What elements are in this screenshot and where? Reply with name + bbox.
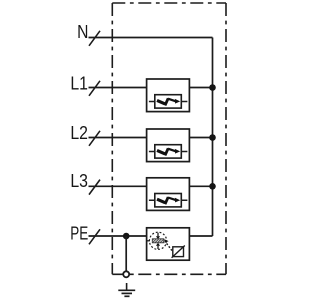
wire L2 right [189, 137, 212, 139]
svg-text:L1: L1 [70, 74, 88, 94]
svg-text:PE: PE [70, 223, 88, 243]
tick on PE feeder [89, 229, 100, 244]
ground [118, 290, 135, 296]
svg-text:N: N [77, 22, 88, 42]
terminal circle on enclosure [123, 271, 129, 277]
wire L3 left [89, 185, 147, 187]
enclosure dashed border top [112, 2, 226, 4]
svg-text:L3: L3 [70, 171, 88, 191]
tick on N feeder [89, 31, 100, 46]
junction dot L2-bus [209, 134, 216, 141]
wire bus to N-PE arrester [189, 235, 212, 237]
surge arrester U1 (L1-N) [147, 79, 190, 112]
wire N [89, 37, 213, 39]
wire L3 right [189, 185, 212, 187]
wire N bus vertical [212, 38, 214, 237]
surge arrester U2 (L2-N) [147, 129, 190, 162]
spark gap arrester U4 (N-PE) [147, 228, 190, 260]
enclosure dashed border left [111, 3, 113, 274]
enclosure dashed border right [225, 3, 227, 274]
tick on L1 feeder [89, 81, 100, 96]
earth stem [126, 283, 128, 290]
tick on L2 feeder [89, 131, 100, 146]
junction dot L3-bus [209, 183, 216, 190]
junction dot PE [123, 233, 130, 240]
wire L1 left [89, 87, 147, 89]
wire PE to earth terminal [125, 236, 127, 271]
wire L2 left [89, 137, 147, 139]
svg-text:L2: L2 [70, 123, 88, 143]
wire PE [89, 235, 147, 237]
surge arrester U3 (L3-N) [147, 178, 190, 211]
wire L1 right [189, 87, 212, 89]
tick on L3 feeder [89, 180, 100, 195]
junction dot L1-bus [209, 84, 216, 91]
enclosure dashed border bottom [112, 273, 226, 275]
